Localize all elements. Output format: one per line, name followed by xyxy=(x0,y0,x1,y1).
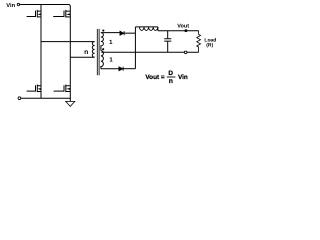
transformer core xyxy=(97,29,99,75)
wire primary top lead xyxy=(41,41,95,43)
terminal circle bottom left xyxy=(18,97,21,100)
svg-text:Vout =: Vout = xyxy=(145,74,164,81)
phase dot middle xyxy=(102,48,104,50)
svg-text:n: n xyxy=(84,49,88,56)
ground xyxy=(66,98,75,106)
diode D1 xyxy=(120,31,124,35)
wire top rail from Vin to right leg corner xyxy=(20,5,71,7)
transistor Q1 (top left MOSFET) xyxy=(27,10,41,18)
svg-text:Vout: Vout xyxy=(177,24,189,30)
capacitor C xyxy=(164,31,171,53)
svg-text:n: n xyxy=(169,78,173,85)
wire D1 to join node xyxy=(124,32,135,34)
svg-text:Vin: Vin xyxy=(178,74,188,81)
wire diode join vertical xyxy=(134,27,136,69)
transformer secondary bottom winding xyxy=(101,51,104,69)
terminal circle output bottom xyxy=(184,51,187,54)
svg-text:D: D xyxy=(168,70,173,77)
diode D2 xyxy=(119,67,123,71)
formula Vout = D/n Vin xyxy=(145,70,188,85)
svg-text:1: 1 xyxy=(109,39,113,46)
terminal circle Vin xyxy=(17,3,19,5)
wire secondary bottom lead to D2 xyxy=(101,68,119,70)
phase dot top xyxy=(102,30,104,32)
wire top output rail xyxy=(158,30,199,32)
transistor Q3 (bottom left MOSFET) xyxy=(27,85,41,93)
svg-text:Vin: Vin xyxy=(6,2,15,9)
fraction bar xyxy=(167,76,176,78)
wire D2 to join node xyxy=(123,68,135,70)
wire leg A vertical xyxy=(40,5,42,99)
wire leg B vertical xyxy=(69,6,71,98)
wire secondary top lead to D1 xyxy=(101,32,120,34)
wire bottom output rail (center tap) xyxy=(101,51,198,53)
svg-text:(R): (R) xyxy=(206,43,213,49)
wire bottom gate rail xyxy=(21,97,71,99)
transistor Q2 (top right MOSFET) xyxy=(53,10,70,18)
transformer secondary top winding xyxy=(101,33,104,51)
transformer primary winding xyxy=(92,42,94,58)
resistor load xyxy=(197,31,201,53)
svg-text:1: 1 xyxy=(109,57,113,64)
inductor L xyxy=(135,27,158,31)
transistor Q4 (bottom right MOSFET) xyxy=(54,85,71,93)
wire primary bottom lead xyxy=(70,56,94,58)
node Vout dot xyxy=(184,29,187,32)
